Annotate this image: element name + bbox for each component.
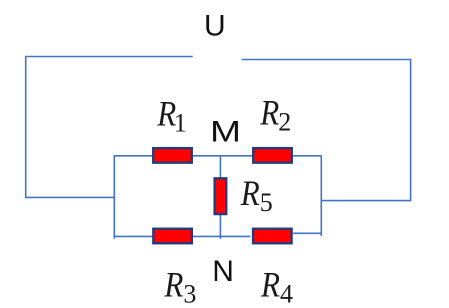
wire: outer left vertical	[25, 57, 27, 198]
resistor R3	[153, 229, 192, 244]
wire: bridge bottom-right horizontal segment	[293, 232, 322, 234]
wire: left connector horizontal to bridge node	[25, 196, 115, 198]
svg-text:R2: R2	[259, 93, 291, 137]
wire: bridge left vertical	[113, 155, 115, 238]
resistor R2	[253, 148, 292, 163]
wire: outer right vertical	[410, 59, 412, 201]
wire: middle vertical branch M-N	[219, 156, 221, 239]
wire: bridge right vertical	[320, 155, 322, 236]
svg-text:R3: R3	[164, 265, 197, 308]
svg-text:R5: R5	[240, 173, 273, 217]
resistor R4	[253, 229, 292, 244]
wire: right connector horizontal to bridge node	[321, 200, 411, 202]
svg-text:N: N	[212, 255, 234, 288]
svg-text:U: U	[204, 10, 226, 43]
resistor R1	[153, 148, 192, 163]
wire: bridge bottom-left horizontal segment	[114, 235, 250, 237]
wire: bridge top horizontal	[114, 155, 321, 157]
svg-text:M: M	[210, 115, 241, 148]
svg-text:R4: R4	[260, 265, 293, 308]
wire: outer top-left horizontal segment	[25, 56, 193, 58]
wire: outer top-right horizontal segment	[242, 59, 411, 61]
svg-text:R1: R1	[156, 94, 186, 138]
resistor R5	[215, 178, 227, 214]
